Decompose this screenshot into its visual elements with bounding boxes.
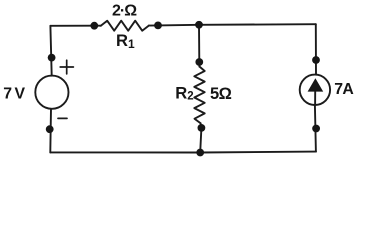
wire: top middle segment — [158, 24, 199, 27]
current source I1 (7 A) circle — [300, 75, 330, 105]
wire: top-left horizontal segment — [50, 25, 94, 27]
svg-text:2·Ω: 2·Ω — [112, 2, 137, 19]
wire: top-right segment — [199, 23, 316, 26]
wire: R2 bottom lead — [200, 123, 203, 128]
wire: left branch upper (corner down to voltage source) — [50, 26, 51, 76]
wire: R1 right lead — [149, 24, 158, 26]
node: dot below voltage source — [46, 125, 54, 133]
wire: left branch lower (voltage source to bottom wire) — [49, 109, 52, 153]
wire: R2 top lead — [198, 62, 200, 67]
node: junction dot on bottom wire — [196, 149, 204, 157]
svg-text:7 A: 7 A — [334, 81, 353, 98]
svg-text:7 V: 7 V — [3, 85, 25, 102]
voltage source V1 (7 V) circle — [35, 76, 68, 109]
polarity plus sign — [60, 60, 73, 74]
current source arrow head — [308, 78, 324, 91]
svg-text:R2: R2 — [175, 84, 193, 103]
wire: right branch lower (current source to bottom wire) — [315, 105, 316, 152]
node: dot at top of R2 — [195, 58, 203, 66]
node: dot above current source — [312, 56, 320, 64]
svg-text:5Ω: 5Ω — [210, 85, 232, 103]
resistor R2 zigzag (5 ohm) — [194, 67, 204, 124]
wire: bottom horizontal — [50, 151, 316, 154]
wire: middle branch lower (R2 to bottom wire) — [200, 128, 201, 153]
node: dot above voltage source — [48, 54, 56, 62]
wire: R1 left lead — [94, 25, 101, 27]
node: junction dot right of R1 — [154, 22, 162, 30]
node: junction dot left of R1 — [90, 22, 98, 30]
node: dot at bottom of R2 — [198, 124, 206, 132]
svg-text:R1: R1 — [116, 31, 135, 51]
wire: right branch upper (corner down to current source) — [315, 24, 317, 74]
node: junction dot at top of middle branch — [195, 21, 203, 29]
resistor R1 zigzag (2 ohm) — [101, 21, 149, 31]
polarity minus sign — [58, 117, 67, 119]
node: dot below current source — [312, 125, 320, 133]
wire: middle branch upper (top wire to R2) — [198, 25, 200, 62]
current source arrow shaft — [314, 92, 316, 105]
